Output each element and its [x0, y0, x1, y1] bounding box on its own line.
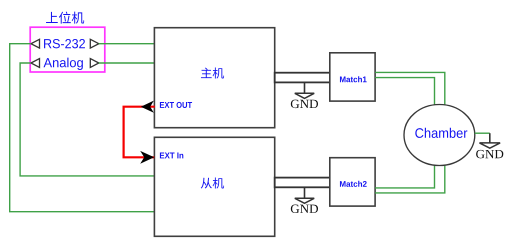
ground GND3 triangle — [480, 143, 501, 148]
ground GND1 triangle — [295, 93, 314, 98]
arrowhead at EXT OUT (points left) — [141, 101, 154, 113]
ground GND2 label — [291, 205, 318, 213]
label 上位机 (host PC) — [46, 12, 84, 24]
label 主机 — [201, 68, 224, 79]
arrowhead at EXT In (points right) — [140, 151, 154, 164]
ground GND2 stem — [304, 187, 306, 198]
wire pair Match2 to Chamber bottom (inner) — [375, 165, 434, 188]
wire RS-232 to 主机 — [99, 43, 155, 45]
wire Analog left loop to 从机 — [20, 63, 154, 176]
pin label EXT OUT — [160, 102, 192, 108]
bus 从机 to Match2 — [275, 178, 330, 188]
label Match2 — [340, 181, 367, 187]
connector box 上位机 ports — [30, 27, 105, 72]
wire EXT OUT to EXT In (red) — [124, 107, 155, 158]
port RS-232 output triangle — [90, 39, 99, 48]
port Analog input triangle — [31, 59, 40, 68]
label Chamber — [415, 128, 467, 138]
ground GND2 triangle — [295, 198, 314, 203]
block Match1 — [330, 53, 375, 101]
ground GND1 label — [291, 100, 318, 108]
wire pair Match2 to Chamber bottom (outer) — [375, 164, 445, 193]
port label RS-232 — [44, 39, 85, 48]
pin label EXT In — [160, 152, 183, 158]
wire Chamber to GND3 — [475, 132, 490, 134]
wire RS-232 left loop to 从机 — [10, 44, 155, 212]
port label Analog — [43, 58, 82, 70]
ground GND3 label — [476, 150, 503, 158]
block Match2 — [330, 158, 375, 206]
ground GND3 stem — [489, 133, 491, 143]
ground GND1 stem — [304, 82, 306, 93]
port Analog output triangle — [90, 59, 99, 68]
label 从机 — [201, 178, 224, 189]
wire Analog to 主机 — [99, 62, 155, 64]
block 主机 (master) — [154, 28, 274, 128]
label Match1 — [340, 76, 367, 82]
block 从机 (slave) — [154, 137, 274, 236]
port RS-232 input triangle — [31, 39, 40, 48]
wire pair Match1 to Chamber top (outer) — [375, 72, 445, 105]
wire pair Match1 to Chamber top (inner) — [375, 78, 434, 106]
chamber ellipse — [404, 105, 475, 166]
bus 主机 to Match1 — [275, 73, 330, 83]
